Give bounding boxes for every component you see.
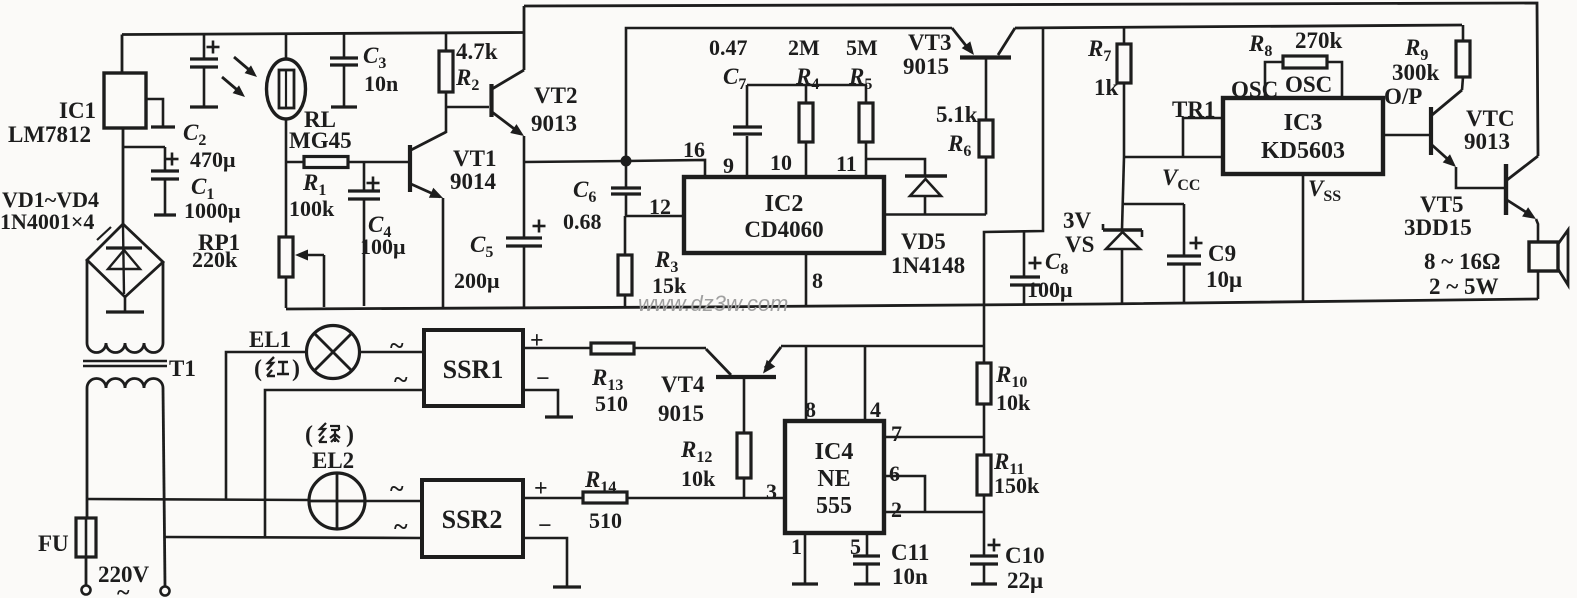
svg-text:10n: 10n [892,564,928,589]
capacitor C7 0.47 [746,136,749,177]
ground (IC4 pin1) [792,582,818,585]
svg-text:6: 6 [889,461,900,486]
wire: EL1 to SSR1 [360,351,425,354]
bridge inner diode [123,226,124,294]
svg-text:16: 16 [683,137,705,162]
svg-text:OSC: OSC [1285,72,1332,97]
svg-text:~: ~ [394,365,408,394]
wire: primary left lead down to fuse [86,388,89,518]
svg-text:1k: 1k [1094,75,1119,100]
svg-text:7: 7 [891,421,902,446]
wire: SSR1 - to ground [523,390,558,416]
wire IC2 pin8 to bus [805,253,808,307]
svg-text:VS: VS [1065,232,1094,257]
wire IC4 pin7 to R10/R11 [884,436,984,439]
terminal (right 220V) [161,587,170,596]
svg-text:10k: 10k [996,390,1031,415]
RP1 wiper arrow [323,255,326,307]
capacitor C9 10u [1124,203,1184,206]
wire IC4 pin6 [884,476,925,512]
supply rail 2 (VT3 collector) [1015,25,1462,28]
svg-text:0.68: 0.68 [563,209,602,234]
wire to IC4 pin4 [864,346,867,421]
svg-text:470μ: 470μ [190,147,236,172]
wire rail2 down to C8 and 555 supply [984,27,1043,363]
wire to IC4 pin8 [805,346,808,421]
resistor R14 510 [583,492,627,503]
ground (bridge) [124,297,127,311]
diode VD5 1N4148 [905,174,947,177]
svg-text:~: ~ [390,474,404,503]
speaker 8-16ohm [1529,242,1558,271]
svg-text:SSR2: SSR2 [442,505,503,534]
wire junction to IC2 pin16 [626,160,705,177]
wire: branch line B to SSR1 [265,390,424,538]
resistor R1 100k on wire [286,161,304,164]
capacitor C2 470u [203,34,206,59]
svg-text:): ) [346,422,354,448]
resistor R11 150k [983,437,986,455]
resistor R10 10k [977,363,991,404]
lamp EL2 (green) [309,473,365,529]
lamp EL1 (red) [307,326,360,379]
svg-text:OSC: OSC [1231,77,1278,102]
svg-text:3: 3 [766,479,777,504]
OSC loop with R8 [1265,62,1283,98]
wire IC4 pin2 [884,511,984,514]
wire VT2 emitter node [523,136,526,162]
IC3 KD5603 (box) [1223,98,1383,174]
IC3 Vss to ground [1302,174,1305,302]
transformer T1 primary winding [87,379,163,389]
svg-text:100μ: 100μ [360,234,406,259]
svg-text:270k: 270k [1295,28,1343,53]
fuse FU [76,518,96,557]
svg-text:10n: 10n [364,71,398,96]
wire VT5 emitter to speaker [1536,219,1538,242]
svg-text:C10: C10 [1005,543,1045,568]
svg-text:22μ: 22μ [1007,568,1043,593]
svg-text:−: − [536,366,550,392]
potentiometer RP1 220k [285,162,288,237]
svg-text:1: 1 [791,534,802,559]
svg-text:VT1: VT1 [453,146,496,171]
svg-text:100μ: 100μ [1027,277,1073,302]
light arrows at RL [234,57,254,74]
top rail (long, y~5) [524,3,1538,156]
solid state relay SSR2 (box) [422,480,523,557]
node (VT2 emitter junction) [621,156,632,167]
wire: branch to EL1 [226,352,307,499]
resistor R6 5.1k [985,157,988,215]
wire VT2 collector up to rails [523,6,526,70]
svg-text:4: 4 [870,397,881,422]
svg-text:~: ~ [117,580,130,598]
svg-text:IC3: IC3 [1284,110,1323,136]
svg-text:4.7k: 4.7k [456,39,498,64]
capacitor C8 100u [1023,232,1026,277]
resistor R13 510 [591,343,634,354]
svg-text:(: ( [254,356,262,382]
svg-text:T1: T1 [169,356,196,381]
wire: EL2 to SSR2 [365,500,422,503]
svg-text:9013: 9013 [531,111,577,136]
svg-text:9015: 9015 [658,401,704,426]
svg-text:MG45: MG45 [289,128,352,153]
transistor VT2 9013 (NPN) [489,84,493,117]
svg-text:1N4148: 1N4148 [891,253,965,278]
svg-text:C11: C11 [891,540,929,565]
ground (C1) [154,213,176,216]
svg-text:1000μ: 1000μ [184,198,241,223]
svg-text:9013: 9013 [1464,129,1510,154]
ground (SSR1) [545,415,573,418]
resistor R12 10k [743,377,746,433]
IC2 CD4060 (box) [684,177,884,253]
capacitor C1 1000u [164,147,167,171]
transistor VT3 9015 (PNP) [960,55,1011,59]
svg-text:VD5: VD5 [901,229,946,254]
svg-text:C9: C9 [1208,241,1236,266]
capacitor C3 10n [343,33,346,58]
ground (C3) [331,105,357,108]
svg-text:IC1: IC1 [59,98,96,123]
resistor R4 2M [805,85,808,103]
regulator IC1 LM7812 (box) [104,73,146,128]
svg-text:5.1k: 5.1k [936,102,978,127]
wire R2/VT1 node to VT2 base [446,106,489,109]
wire R14 to IC4 pin3 [627,497,785,500]
transformer T1 secondary winding [87,343,163,353]
svg-text:KD5603: KD5603 [1261,138,1345,164]
wire R13 to VT4 [634,347,706,350]
wire: bus to IC1 [121,35,124,74]
svg-text:200μ: 200μ [454,268,500,293]
svg-text:8 ~ 16Ω: 8 ~ 16Ω [1424,249,1500,274]
capacitor C5 200u [523,162,526,238]
RC loop top wire [747,84,867,87]
wire: mains line A (to lamps) [86,499,309,500]
svg-text:9014: 9014 [450,169,497,194]
svg-text:O/P: O/P [1384,84,1422,109]
resistor R5 5M [865,85,868,103]
svg-text:5: 5 [850,534,861,559]
svg-text:LM7812: LM7812 [8,122,91,147]
svg-text:300k: 300k [1392,60,1440,85]
svg-text:1N4001×4: 1N4001×4 [0,209,94,234]
transistor VT4 9015 (PNP) [716,375,776,379]
wire: fuse to terminal [85,557,88,585]
svg-text:SSR1: SSR1 [443,355,504,384]
svg-text:IC4: IC4 [815,439,854,465]
svg-text:~: ~ [394,512,408,541]
svg-text:100k: 100k [289,196,335,221]
wire pin11 to VD5 [866,159,925,175]
svg-text:9015: 9015 [903,54,949,79]
wire: SSR2 - to ground [523,538,567,586]
IC4 pin1 to ground [804,533,807,583]
svg-text:10μ: 10μ [1206,267,1242,292]
wire: SSR1 + output [523,347,591,350]
capacitor C4 100u [363,162,366,191]
transistor VTC 9013 (NPN) [1429,107,1433,155]
wire IC2 output to R6 [884,213,986,216]
transistor VT5 3DD15 (NPN power) [1504,164,1508,215]
wire: mains line B [165,537,422,538]
svg-text:2 ~ 5W: 2 ~ 5W [1429,274,1498,299]
wire: bridge AC to transformer secondary [86,260,89,343]
bridge rectifier VD1~VD4 (diamond) [87,224,163,297]
svg-text:CD4060: CD4060 [744,217,823,242]
svg-text:8: 8 [812,268,823,293]
resistor R9 300k [1462,25,1465,41]
ground (C2) [190,105,218,108]
svg-text:8: 8 [805,397,816,422]
svg-text:2: 2 [891,497,902,522]
IC4 NE555 (box) [785,421,884,533]
svg-text:): ) [292,356,300,382]
zener VS 3V [1122,157,1124,229]
svg-text:10k: 10k [681,466,716,491]
svg-text:150k: 150k [994,473,1040,498]
wire C6 to IC2 pin12 [626,215,684,218]
photoresistor RL MG45 [285,34,288,60]
svg-text:3DD15: 3DD15 [1404,215,1472,240]
svg-text:TR1: TR1 [1172,97,1215,122]
transistor VT1 9014 (NPN) [408,145,412,192]
wire: primary right lead down [163,388,165,586]
svg-text:9: 9 [723,153,734,178]
wire VT1 emitter to bus [442,198,445,307]
svg-text:3V: 3V [1063,208,1092,233]
wire VT4 emitter to 555 supply [781,345,985,348]
wire to C1 [123,146,165,149]
capacitor C6 0.68 [625,161,628,188]
svg-text:510: 510 [595,391,628,416]
svg-text:NE: NE [817,466,850,492]
svg-text:−: − [538,513,552,539]
ground (C11) [854,582,880,585]
svg-text:5M: 5M [846,35,878,60]
capacitor C11 10n on pin5 [866,533,869,556]
capacitor C10 22u [983,512,986,556]
wire junction up to VT3 emitter rail [626,28,952,161]
IC1 ground pin wire [146,99,163,126]
solid state relay SSR1 (box) [424,330,523,406]
svg-text:0.47: 0.47 [709,35,748,60]
ground (SSR2) [553,585,581,588]
resistor R7 1k [1123,26,1126,44]
svg-text:VT5: VT5 [1420,192,1463,217]
svg-text:VT4: VT4 [661,372,705,397]
TR1 step wire [1183,118,1223,157]
svg-text:EL1: EL1 [249,327,291,352]
wire speaker to ground bus [1537,271,1540,299]
resistor R2 4.7k [445,33,448,52]
svg-text:www.dz3w.com: www.dz3w.com [638,291,788,316]
svg-text:12: 12 [649,194,671,219]
svg-text:VT2: VT2 [534,83,577,108]
svg-text:510: 510 [589,508,622,533]
svg-text:+: + [530,328,544,354]
svg-text:FU: FU [38,531,69,556]
top supply rail (+12V) y~33 left section [122,33,524,35]
svg-text:220k: 220k [192,247,238,272]
ground bus (main horizontal) [286,299,1538,309]
resistor R3 15k [624,216,627,255]
svg-text:2M: 2M [788,35,820,60]
svg-text:EL2: EL2 [312,448,354,473]
ground (C10) [971,582,997,585]
transformer core [83,360,167,363]
svg-text:10: 10 [770,150,792,175]
svg-text:11: 11 [836,151,857,176]
ground (IC1) [151,125,175,128]
svg-text:IC2: IC2 [765,191,804,217]
svg-text:VTC: VTC [1466,106,1515,131]
wire IC1 to bridge [122,128,125,224]
wire: SSR2 + output [523,497,583,500]
svg-text:555: 555 [816,493,852,519]
svg-text:(: ( [305,422,313,448]
terminal (left 220V) [82,586,91,595]
wire Vcc node to IC3 [1124,156,1223,159]
IC3 output O/P wire [1383,134,1429,137]
svg-text:~: ~ [390,331,404,360]
svg-text:VT3: VT3 [908,30,951,55]
wire VTC emitter to VT5 base [1456,167,1506,188]
